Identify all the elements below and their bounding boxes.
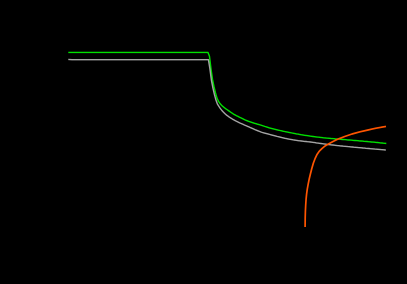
gray curve: plateau slightly below green, drops just left of green, tail below green xyxy=(68,59,386,150)
orange curve: rises steeply from bottom near x=305 and bends right, crossing gray then green xyxy=(305,126,386,227)
green curve: flat plateau then steep drop and log tail xyxy=(68,52,386,143)
